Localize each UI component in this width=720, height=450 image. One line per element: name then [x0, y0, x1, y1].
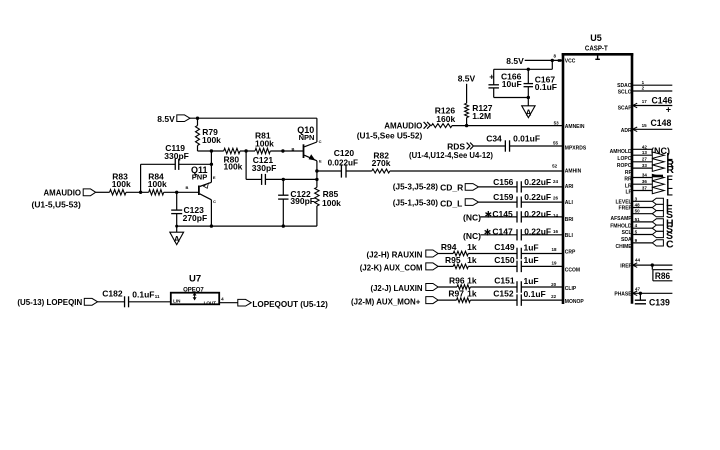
- svg-text:4: 4: [635, 223, 638, 228]
- svg-text:CLIP: CLIP: [565, 286, 577, 292]
- svg-text:RR: RR: [624, 177, 632, 183]
- svg-text:14: 14: [553, 213, 559, 218]
- svg-text:55: 55: [553, 141, 559, 146]
- svg-text:1k: 1k: [467, 242, 477, 252]
- svg-text:CCOM: CCOM: [565, 268, 580, 274]
- svg-text:C: C: [319, 139, 322, 144]
- svg-text:26: 26: [553, 196, 559, 201]
- svg-text:0.1uF: 0.1uF: [535, 82, 557, 92]
- svg-text:+: +: [489, 72, 494, 82]
- svg-text:33: 33: [642, 163, 648, 168]
- svg-text:13: 13: [642, 150, 648, 155]
- svg-text:CD_R: CD_R: [440, 182, 463, 192]
- svg-text:(J5-3,J5-28): (J5-3,J5-28): [393, 182, 438, 192]
- svg-text:0.22uF: 0.22uF: [524, 209, 551, 219]
- svg-text:MONOP: MONOP: [565, 299, 585, 305]
- svg-text:11: 11: [155, 294, 160, 299]
- svg-text:10uF: 10uF: [502, 79, 522, 89]
- svg-text:BLI: BLI: [565, 233, 574, 239]
- svg-text:1uF: 1uF: [524, 276, 539, 286]
- svg-text:AMHIN: AMHIN: [565, 169, 582, 175]
- svg-text:(U1-4,U12-4,See U4-12): (U1-4,U12-4,See U4-12): [409, 150, 493, 160]
- svg-text:34: 34: [642, 172, 648, 177]
- svg-text:MPXRDS: MPXRDS: [565, 145, 587, 151]
- svg-text:U5: U5: [590, 33, 602, 43]
- svg-text:C147: C147: [492, 227, 513, 237]
- svg-text:+: +: [666, 105, 671, 115]
- svg-text:C182: C182: [102, 289, 123, 299]
- svg-text:42: 42: [642, 144, 648, 149]
- svg-text:(U1-5,U5-53): (U1-5,U5-53): [32, 199, 81, 209]
- svg-text:100k: 100k: [224, 162, 243, 172]
- svg-text:(J2-M) AUX_MON+: (J2-M) AUX_MON+: [351, 296, 420, 306]
- svg-text:3: 3: [635, 196, 638, 201]
- svg-text:IREF: IREF: [620, 263, 631, 269]
- svg-text:C139: C139: [649, 298, 670, 309]
- svg-text:15: 15: [642, 123, 648, 128]
- svg-text:22: 22: [551, 294, 557, 299]
- svg-text:CASP-T: CASP-T: [585, 44, 608, 53]
- svg-text:270k: 270k: [372, 158, 391, 168]
- svg-text:330pF: 330pF: [252, 163, 277, 173]
- svg-text:52: 52: [552, 164, 558, 169]
- svg-text:FREF: FREF: [619, 205, 632, 211]
- svg-text:B: B: [186, 185, 189, 190]
- svg-text:B: B: [292, 147, 295, 152]
- svg-text:AFSAMP: AFSAMP: [610, 216, 632, 222]
- svg-text:SCLO: SCLO: [618, 90, 632, 96]
- svg-text:(U1-5,See U5-52): (U1-5,See U5-52): [357, 131, 423, 141]
- svg-text:LOPEQOUT (U5-12): LOPEQOUT (U5-12): [252, 299, 328, 309]
- svg-text:C120: C120: [334, 148, 355, 158]
- svg-text:20: 20: [551, 282, 557, 287]
- svg-text:CRP: CRP: [565, 250, 576, 256]
- svg-text:16: 16: [553, 229, 559, 234]
- svg-text:51: 51: [635, 217, 641, 222]
- svg-text:1k: 1k: [467, 289, 477, 299]
- svg-text:0.1uF: 0.1uF: [524, 289, 546, 299]
- svg-text:160k: 160k: [436, 114, 455, 124]
- svg-text:0.1uF: 0.1uF: [132, 290, 154, 300]
- svg-text:0.022uF: 0.022uF: [328, 158, 358, 168]
- svg-text:E: E: [213, 175, 216, 180]
- svg-text:37: 37: [642, 185, 648, 190]
- svg-text:C149: C149: [494, 242, 515, 252]
- svg-text:44: 44: [635, 258, 641, 263]
- svg-text:LF: LF: [625, 189, 631, 195]
- svg-text:36: 36: [642, 179, 648, 184]
- svg-text:C: C: [666, 238, 674, 250]
- svg-text:C152: C152: [493, 289, 514, 299]
- svg-text:R94: R94: [441, 242, 457, 252]
- svg-text:A: A: [526, 108, 532, 117]
- svg-text:BRI: BRI: [565, 217, 574, 223]
- svg-text:0.22uF: 0.22uF: [524, 177, 551, 187]
- svg-text:5: 5: [635, 230, 638, 235]
- svg-text:(J2-K) AUX_COM: (J2-K) AUX_COM: [360, 263, 423, 273]
- svg-text:8.5V: 8.5V: [506, 56, 524, 66]
- svg-text:CHIME: CHIME: [615, 244, 632, 250]
- svg-text:RF: RF: [625, 170, 632, 176]
- svg-text:C159: C159: [493, 192, 514, 202]
- svg-text:FMHOLD: FMHOLD: [610, 224, 632, 230]
- svg-text:ADR: ADR: [621, 128, 632, 134]
- svg-text:C: C: [213, 199, 216, 204]
- svg-text:SDA: SDA: [621, 237, 632, 243]
- svg-text:AMAUDIO: AMAUDIO: [44, 187, 82, 197]
- svg-text:C34: C34: [486, 134, 502, 144]
- svg-text:1k: 1k: [467, 255, 477, 265]
- svg-text:R86: R86: [655, 271, 670, 282]
- svg-text:100k: 100k: [112, 179, 131, 189]
- svg-text:A: A: [174, 235, 180, 244]
- svg-text:53: 53: [554, 120, 560, 125]
- svg-text:CD_L: CD_L: [440, 198, 462, 208]
- svg-text:C148: C148: [651, 118, 672, 129]
- svg-text:24: 24: [553, 179, 559, 184]
- svg-text:9: 9: [635, 238, 638, 243]
- svg-text:100k: 100k: [148, 179, 167, 189]
- svg-text:R96: R96: [449, 276, 465, 286]
- svg-text:0.22uF: 0.22uF: [524, 192, 551, 202]
- svg-text:ROPO: ROPO: [617, 163, 632, 169]
- svg-text:OPEQ7: OPEQ7: [183, 287, 204, 293]
- svg-text:ARI: ARI: [565, 184, 574, 190]
- svg-text:LOPO: LOPO: [617, 156, 631, 162]
- svg-text:C145: C145: [492, 209, 513, 219]
- svg-text:17: 17: [642, 99, 648, 104]
- svg-text:19: 19: [552, 261, 558, 266]
- svg-text:LOUT: LOUT: [204, 301, 217, 306]
- svg-text:E: E: [319, 158, 322, 163]
- svg-text:18: 18: [552, 247, 558, 252]
- svg-text:(J5-1,J5-30): (J5-1,J5-30): [393, 198, 438, 208]
- svg-text:NPN: NPN: [299, 133, 315, 142]
- svg-text:VCC: VCC: [565, 58, 576, 64]
- svg-text:AMHOLD: AMHOLD: [610, 149, 632, 155]
- svg-text:27: 27: [642, 157, 648, 162]
- svg-text:1.2M: 1.2M: [472, 111, 491, 121]
- svg-text:SCAP: SCAP: [618, 106, 633, 112]
- svg-text:1: 1: [642, 80, 645, 85]
- svg-text:LIN: LIN: [173, 299, 181, 304]
- svg-text:(J2-J) LAUXIN: (J2-J) LAUXIN: [371, 283, 423, 293]
- svg-text:50: 50: [635, 209, 641, 214]
- svg-text:(NC): (NC): [463, 212, 481, 222]
- svg-text:100k: 100k: [322, 198, 341, 208]
- svg-text:48: 48: [635, 203, 641, 208]
- svg-text:100k: 100k: [202, 135, 221, 145]
- svg-text:U7: U7: [189, 273, 201, 284]
- svg-text:AMNEIN: AMNEIN: [565, 124, 585, 130]
- svg-text:(J2-H) RAUXIN: (J2-H) RAUXIN: [367, 250, 423, 260]
- svg-text:8.5V: 8.5V: [458, 74, 476, 84]
- svg-text:1k: 1k: [467, 276, 477, 286]
- svg-text:SDAO: SDAO: [617, 83, 632, 89]
- svg-text:R97: R97: [448, 289, 464, 299]
- svg-text:330pF: 330pF: [164, 151, 189, 161]
- svg-text:4: 4: [221, 297, 224, 302]
- svg-text:8.5V: 8.5V: [157, 114, 175, 124]
- svg-text:1uF: 1uF: [524, 242, 539, 252]
- svg-text:0.01uF: 0.01uF: [513, 134, 540, 144]
- svg-text:0.22uF: 0.22uF: [524, 227, 551, 237]
- svg-text:PHASE: PHASE: [614, 292, 632, 298]
- svg-text:8: 8: [554, 54, 557, 59]
- svg-text:2: 2: [642, 86, 645, 91]
- svg-text:390pF: 390pF: [290, 196, 315, 206]
- svg-text:C156: C156: [493, 177, 514, 187]
- svg-text:ALI: ALI: [565, 200, 574, 206]
- svg-text:SCL: SCL: [622, 230, 632, 236]
- svg-text:1uF: 1uF: [524, 255, 539, 265]
- svg-text:C150: C150: [494, 255, 515, 265]
- svg-text:C151: C151: [494, 275, 515, 285]
- svg-text:270pF: 270pF: [183, 213, 208, 223]
- svg-text:(NC): (NC): [463, 231, 481, 241]
- svg-text:47: 47: [635, 287, 641, 292]
- svg-text:AMAUDIO: AMAUDIO: [384, 121, 423, 131]
- svg-text:(U5-13) LOPEQIN: (U5-13) LOPEQIN: [17, 297, 82, 307]
- svg-text:100k: 100k: [255, 138, 274, 148]
- svg-text:R95: R95: [445, 255, 461, 265]
- svg-text:PNP: PNP: [192, 173, 207, 182]
